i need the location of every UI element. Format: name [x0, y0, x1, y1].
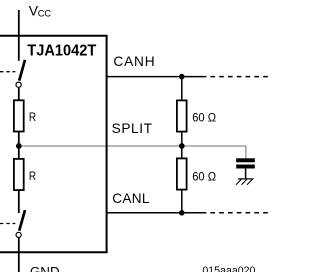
svg-text:R: R: [29, 171, 36, 183]
wire R1 to split node: [18, 132, 20, 147]
wire S2 to GND: [18, 238, 20, 272]
switch S1 control dashed line: [0, 71, 15, 73]
svg-text:GND: GND: [30, 264, 60, 272]
wire SPLIT net (gray) horizontal: [19, 145, 246, 147]
wire CANH node to RT1: [181, 77, 183, 101]
ground symbol hatch 1: [236, 179, 242, 185]
capacitor C1 bottom plate: [236, 165, 255, 169]
wire RT1 to split bus node: [181, 132, 183, 146]
wire RT2 to CANL node: [181, 190, 183, 213]
transceiver TJA1042T box outline: [0, 36, 107, 253]
svg-text:CC: CC: [38, 8, 52, 18]
ground symbol hatch 2: [242, 179, 248, 185]
switch S2 blade: [19, 210, 25, 231]
resistor RT1 60 ohm: [177, 100, 187, 131]
svg-text:60 Ω: 60 Ω: [192, 169, 216, 183]
switch S2 control dashed line: [0, 223, 15, 225]
svg-text:TJA1042T: TJA1042T: [27, 43, 96, 60]
wire C1 to ground: [245, 169, 247, 179]
ground symbol hatch 3: [247, 179, 253, 185]
svg-text:R: R: [29, 112, 36, 124]
wire CANL solid: [107, 212, 207, 214]
wire CANL dashed bus continuation: [210, 212, 270, 214]
node SPLIT bus junction: [179, 143, 185, 149]
wire split node to R2: [18, 146, 20, 159]
wire R2 to S2: [18, 190, 20, 213]
node CANH junction: [179, 74, 185, 80]
wire from VCC into box: [18, 10, 20, 61]
ground symbol bar: [238, 178, 254, 180]
svg-text:60 Ω: 60 Ω: [192, 111, 216, 125]
wire CANH solid: [107, 76, 207, 78]
switch S2 contact circle: [16, 232, 21, 237]
capacitor C1 top plate: [236, 158, 255, 162]
switch S1 blade: [19, 60, 25, 81]
svg-text:SPLIT: SPLIT: [112, 121, 153, 136]
wire SPLIT net (gray) vertical drop to capacitor: [245, 145, 247, 158]
svg-text:015aaa020: 015aaa020: [202, 265, 255, 272]
resistor R2: [14, 159, 24, 190]
node split junction (inside box): [16, 143, 22, 149]
wire split bus node to RT2: [181, 146, 183, 158]
node CANL junction: [179, 210, 185, 216]
resistor R1: [14, 100, 24, 131]
svg-text:CANH: CANH: [113, 54, 155, 69]
resistor RT2 60 ohm: [177, 158, 187, 189]
switch S1 contact circle: [16, 82, 21, 87]
wire CANH dashed bus continuation: [210, 76, 270, 78]
wire S1 to R1: [18, 88, 20, 101]
svg-text:CANL: CANL: [112, 191, 150, 206]
